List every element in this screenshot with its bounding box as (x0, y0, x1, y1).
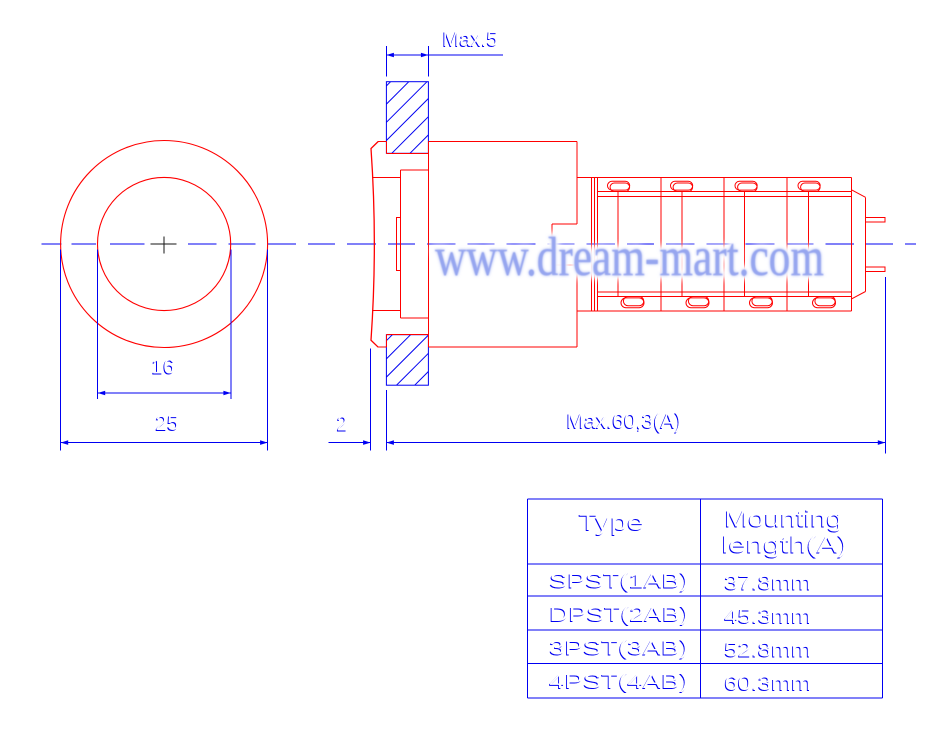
svg-text:Type: Type (579, 509, 644, 535)
main body (429, 141, 577, 143)
wafer stack (577, 176, 852, 178)
svg-text:Max.60,3(A): Max.60,3(A) (567, 410, 682, 433)
svg-text:length(A): length(A) (722, 532, 848, 558)
center cross (151, 237, 177, 254)
svg-text:Mounting: Mounting (725, 506, 843, 532)
svg-text:16: 16 (152, 356, 175, 379)
svg-text:SPST(1AB): SPST(1AB) (549, 571, 689, 593)
front view circles (61, 141, 268, 348)
bezel (378, 141, 386, 143)
table (528, 499, 883, 698)
svg-text:2: 2 (337, 413, 348, 436)
svg-text:DPST(2AB): DPST(2AB) (549, 604, 689, 626)
svg-text:60.3mm: 60.3mm (725, 672, 812, 695)
side view: axis-aligned red lines (372, 142, 885, 348)
centerline (42, 243, 917, 245)
button face (372, 177, 401, 179)
side view: diagonal / curved red lines (371, 142, 866, 348)
svg-text:Max.5: Max.5 (443, 28, 499, 51)
terminals (866, 217, 885, 222)
dimension arrows (61, 53, 886, 445)
hatched panel sections (386, 82, 428, 386)
svg-text:37.8mm: 37.8mm (725, 572, 812, 595)
end cap vertical (865, 197, 867, 291)
svg-text:52.8mm: 52.8mm (725, 639, 812, 662)
contact ovals (608, 181, 836, 307)
svg-text:25: 25 (156, 412, 179, 435)
svg-text:3PST(3AB): 3PST(3AB) (549, 638, 689, 660)
dimension lines (61, 46, 886, 454)
svg-text:45.3mm: 45.3mm (725, 605, 812, 628)
svg-text:4PST(4AB): 4PST(4AB) (549, 671, 689, 693)
